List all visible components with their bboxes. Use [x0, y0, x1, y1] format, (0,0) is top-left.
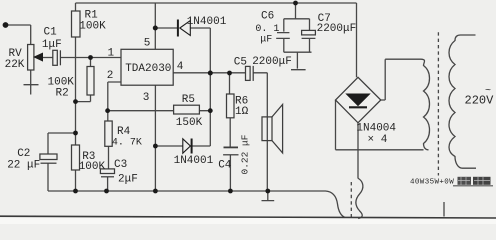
- svg-text:1μF: 1μF: [42, 39, 62, 51]
- svg-text:C6: C6: [261, 10, 274, 22]
- svg-text:3: 3: [143, 92, 150, 104]
- svg-text:150K: 150K: [176, 117, 203, 129]
- svg-text:1Ω: 1Ω: [235, 106, 249, 118]
- svg-text:C5: C5: [234, 56, 247, 68]
- svg-text:4: 4: [177, 61, 184, 73]
- svg-text:100K: 100K: [79, 20, 106, 32]
- svg-text:1N4001: 1N4001: [187, 16, 227, 28]
- svg-text:1N4004: 1N4004: [356, 123, 396, 135]
- svg-text:40W35W+0W: 40W35W+0W: [410, 179, 454, 187]
- svg-text:0.22 μF: 0.22 μF: [240, 134, 251, 174]
- svg-text:C2: C2: [17, 148, 30, 160]
- svg-text:1N4001: 1N4001: [174, 155, 214, 167]
- svg-text:2μF: 2μF: [118, 173, 138, 185]
- svg-text:C4: C4: [218, 160, 232, 172]
- svg-text:R4: R4: [117, 126, 131, 138]
- svg-text:~: ~: [485, 86, 491, 97]
- svg-text:22 μF: 22 μF: [7, 160, 40, 172]
- svg-text:× 4: × 4: [368, 134, 388, 146]
- svg-text:100K: 100K: [79, 161, 106, 173]
- svg-text:4. 7K: 4. 7K: [112, 138, 142, 149]
- svg-text:R5: R5: [182, 94, 195, 106]
- svg-text:2200μF: 2200μF: [317, 23, 357, 35]
- svg-text:22K: 22K: [5, 59, 25, 71]
- svg-text:5: 5: [144, 38, 151, 50]
- svg-text:1: 1: [108, 47, 115, 59]
- svg-text:C1: C1: [44, 27, 58, 39]
- svg-text:0. 1: 0. 1: [255, 24, 279, 35]
- svg-text:R2: R2: [56, 87, 69, 99]
- svg-text:2: 2: [107, 70, 114, 82]
- svg-text:μF: μF: [260, 35, 272, 46]
- svg-text:2200μF: 2200μF: [252, 56, 292, 68]
- svg-text:TDA2030: TDA2030: [125, 63, 171, 75]
- svg-text:C3: C3: [114, 159, 127, 171]
